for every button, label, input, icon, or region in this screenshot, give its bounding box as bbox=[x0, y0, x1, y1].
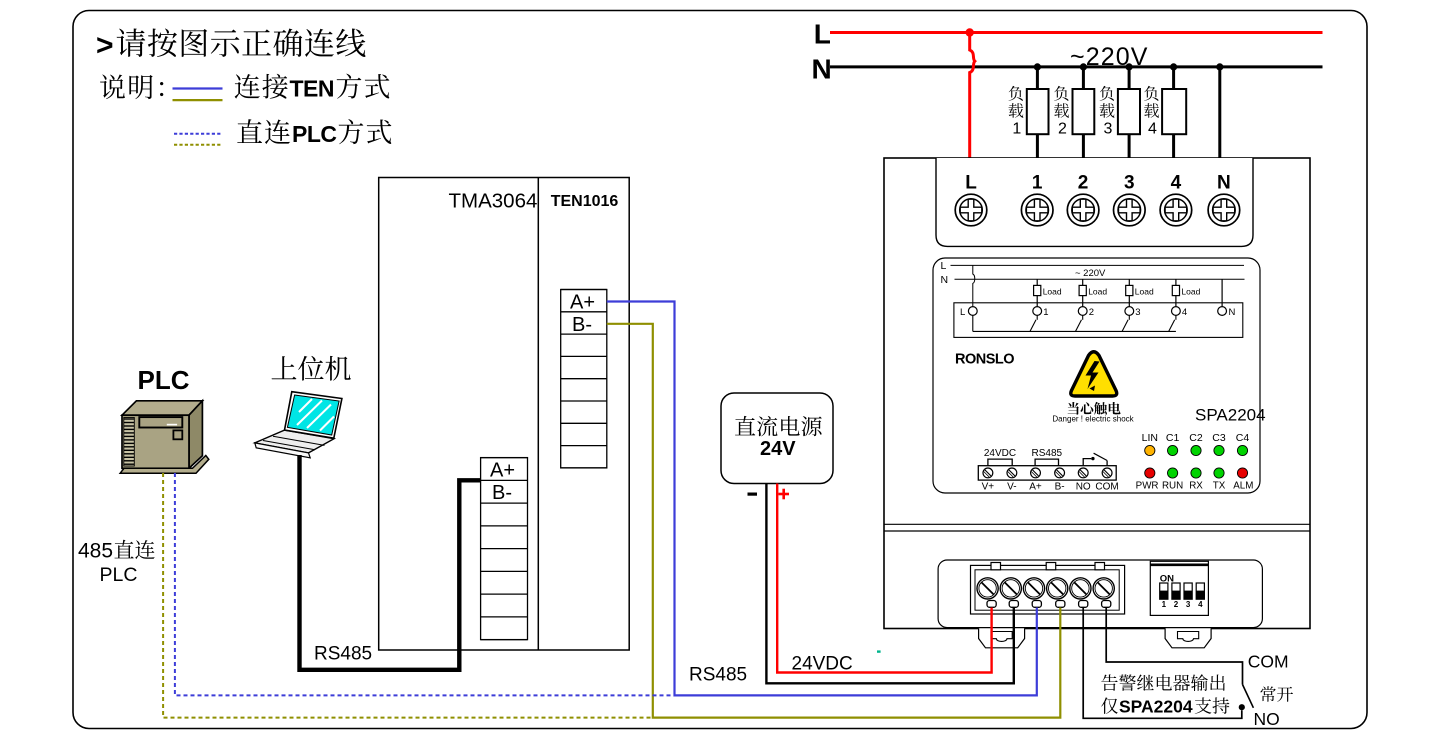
mini load branch 2 bbox=[1079, 279, 1107, 306]
svg-text:4: 4 bbox=[1148, 121, 1157, 138]
svg-text:C1: C1 bbox=[1166, 432, 1180, 444]
svg-text:N: N bbox=[941, 274, 949, 286]
relay contact dot NO bbox=[1239, 704, 1245, 710]
minus terminal label bbox=[748, 493, 758, 496]
svg-text:1: 1 bbox=[1032, 173, 1043, 194]
svg-text:24VDC: 24VDC bbox=[792, 654, 853, 675]
svg-text:2: 2 bbox=[1174, 600, 1179, 609]
wire N to load 1 bbox=[1036, 67, 1039, 89]
svg-text:1: 1 bbox=[1043, 307, 1048, 318]
label 告警继电器输出 bbox=[1101, 674, 1225, 691]
junction dot on N at N drop bbox=[1216, 63, 1223, 70]
legend wire PLC dashed blue bbox=[174, 133, 222, 135]
wire olive B- TEN1016 to B- terminal bbox=[607, 324, 1061, 718]
svg-text:>: > bbox=[96, 29, 114, 62]
junction dot on N (branch 4) bbox=[1170, 63, 1177, 70]
LED RX bbox=[1191, 468, 1201, 478]
label 负载4 bbox=[1144, 86, 1159, 138]
mounting foot bbox=[979, 628, 1025, 648]
svg-text:4: 4 bbox=[1198, 600, 1203, 609]
junction dot on N (branch 1) bbox=[1034, 63, 1041, 70]
load resistor 负载3 bbox=[1118, 89, 1140, 134]
wire dashed blue PLC direct A+ bbox=[175, 473, 675, 695]
terminal block tab bbox=[991, 563, 1001, 570]
terminal screw 2 bbox=[1067, 194, 1099, 226]
wire slot 3 bbox=[1032, 601, 1041, 608]
device SPA2204 outer body bbox=[884, 158, 1310, 629]
svg-text:RS485: RS485 bbox=[689, 665, 747, 686]
svg-text:N: N bbox=[1229, 307, 1236, 318]
module divider bbox=[537, 178, 539, 651]
label 常开 bbox=[1260, 686, 1293, 702]
load resistor 负载1 bbox=[1027, 89, 1049, 134]
svg-text:TX: TX bbox=[1213, 481, 1226, 492]
LED TX bbox=[1214, 468, 1224, 478]
label 上位机 bbox=[272, 356, 351, 381]
wire load 1 to terminal 1 bbox=[1036, 134, 1039, 166]
svg-text:A+: A+ bbox=[570, 292, 595, 314]
mini relay contact symbol bbox=[1083, 453, 1107, 466]
svg-text:1: 1 bbox=[1012, 121, 1021, 138]
mini terminal block bbox=[978, 466, 1116, 480]
DIP switch 4 bbox=[1196, 583, 1204, 609]
junction dot on N (branch 2) bbox=[1080, 63, 1087, 70]
wire blue A+ TEN1016 to A+ terminal bbox=[607, 302, 1037, 696]
svg-text:24V: 24V bbox=[760, 438, 796, 460]
terminal block tab bbox=[1046, 563, 1056, 570]
mini terminal N circle bbox=[1218, 307, 1227, 316]
mini load branch 3 bbox=[1126, 279, 1154, 306]
device band line upper bbox=[884, 523, 1310, 525]
svg-text:SPA2204: SPA2204 bbox=[1195, 406, 1266, 425]
mini screw A+ bbox=[1031, 468, 1041, 478]
svg-text:A+: A+ bbox=[1029, 482, 1042, 493]
svg-text:V-: V- bbox=[1007, 482, 1016, 493]
mini wire N drop bbox=[1221, 279, 1223, 306]
svg-text:RS485: RS485 bbox=[314, 644, 372, 665]
warning triangle bbox=[1071, 352, 1117, 396]
mini screw V+ bbox=[983, 468, 993, 478]
svg-text:RONSLO: RONSLO bbox=[955, 352, 1014, 368]
svg-text:Load: Load bbox=[1088, 287, 1107, 297]
mini screw COM bbox=[1102, 468, 1112, 478]
label 负载2 bbox=[1054, 86, 1069, 138]
TEN1016 terminal strip bbox=[561, 290, 607, 468]
svg-text:ALM: ALM bbox=[1233, 481, 1253, 492]
plus terminal label (red) bbox=[779, 489, 790, 500]
top terminal strip box bbox=[936, 158, 1253, 246]
svg-text:2: 2 bbox=[1058, 121, 1067, 138]
mini terminal 2 circle + switch bbox=[1076, 307, 1094, 332]
wire COM bbox=[1106, 608, 1242, 685]
svg-text:4: 4 bbox=[1182, 307, 1187, 318]
svg-text:L: L bbox=[965, 173, 977, 194]
wire N to load 4 bbox=[1172, 67, 1175, 89]
bottom screw 1 bbox=[977, 578, 998, 599]
terminal screw N bbox=[1208, 194, 1240, 226]
wire black -24V to V- bbox=[766, 484, 1013, 684]
LED C2 bbox=[1191, 445, 1201, 455]
wire RS485 cable (laptop to TMA3064) thick black bbox=[300, 455, 481, 670]
legend wire TEN solid blue bbox=[173, 87, 223, 89]
mini screw V- bbox=[1007, 468, 1017, 478]
svg-text:COM: COM bbox=[1248, 652, 1289, 672]
bottom screw 2 bbox=[1000, 578, 1021, 599]
module box TMA3064/TEN1016 bbox=[379, 178, 630, 651]
mounting foot bbox=[1165, 628, 1211, 648]
svg-text:1: 1 bbox=[1162, 600, 1167, 609]
junction dot on L bbox=[966, 28, 974, 36]
bottom screw 6 bbox=[1093, 578, 1114, 599]
wire NO to relay contact bbox=[1083, 608, 1242, 719]
mini load branch 1 bbox=[1034, 279, 1062, 306]
wire dashed olive PLC direct B- bbox=[163, 473, 653, 718]
mini wire N bbox=[955, 278, 1245, 280]
laptop 上位机 bbox=[255, 392, 342, 458]
legend text 连接TEN方式 bbox=[235, 74, 390, 102]
load resistor 负载2 bbox=[1073, 89, 1095, 134]
terminal screw 4 bbox=[1160, 194, 1192, 226]
junction dot on N (branch 3) bbox=[1126, 63, 1133, 70]
svg-text:L: L bbox=[960, 307, 965, 318]
wire N (neutral, black) bbox=[830, 65, 1323, 68]
wire slot 2 bbox=[1009, 601, 1018, 608]
stray green tick bbox=[877, 650, 881, 652]
mini screw NO bbox=[1078, 468, 1088, 478]
wire L drop to terminal L with hop over N bbox=[970, 33, 975, 167]
wire load 4 to terminal 4 bbox=[1172, 134, 1175, 166]
svg-text:V+: V+ bbox=[982, 482, 995, 493]
wire L (live, red) bbox=[830, 31, 1323, 34]
svg-text:RUN: RUN bbox=[1162, 481, 1183, 492]
mini terminal 4 circle + switch bbox=[1169, 307, 1187, 332]
label 负载3 bbox=[1100, 86, 1115, 138]
svg-text:2: 2 bbox=[1078, 173, 1089, 194]
wire load 3 to terminal 3 bbox=[1128, 134, 1131, 166]
label 负载1 bbox=[1008, 86, 1023, 138]
wire slot 4 bbox=[1056, 601, 1065, 608]
LED C1 bbox=[1168, 445, 1178, 455]
title 请按图示正确连线 bbox=[96, 28, 366, 62]
legend label 说明： bbox=[100, 74, 163, 99]
svg-text:C2: C2 bbox=[1189, 432, 1203, 444]
svg-text:~ 220V: ~ 220V bbox=[1075, 268, 1106, 279]
legend wire PLC dashed olive bbox=[174, 144, 222, 146]
svg-text:3: 3 bbox=[1104, 121, 1113, 138]
wire load 2 to terminal 2 bbox=[1082, 134, 1085, 166]
svg-text:Danger ! electric shock: Danger ! electric shock bbox=[1052, 414, 1134, 423]
svg-text:3: 3 bbox=[1135, 307, 1140, 318]
svg-text:B-: B- bbox=[572, 314, 592, 336]
mini terminal 1 circle + switch bbox=[1030, 307, 1048, 332]
mini terminal L circle bbox=[968, 307, 977, 316]
svg-text:TMA3064: TMA3064 bbox=[449, 190, 538, 213]
svg-text:LIN: LIN bbox=[1142, 432, 1158, 444]
svg-text:2: 2 bbox=[1089, 307, 1094, 318]
svg-text:C3: C3 bbox=[1212, 432, 1226, 444]
svg-text:N: N bbox=[1217, 173, 1231, 194]
svg-text:485: 485 bbox=[78, 540, 113, 563]
PLC controller 3D box bbox=[120, 401, 209, 473]
svg-text:NO: NO bbox=[1254, 709, 1280, 729]
svg-text:NO: NO bbox=[1076, 482, 1091, 493]
LED RUN bbox=[1168, 468, 1178, 478]
wire slot 1 bbox=[987, 601, 996, 608]
LED C3 bbox=[1214, 445, 1224, 455]
svg-text:3: 3 bbox=[1124, 173, 1135, 194]
legend text 直连PLC方式 bbox=[237, 119, 391, 147]
bottom screw 4 bbox=[1047, 578, 1068, 599]
mini wire L drop with hop bbox=[973, 265, 975, 306]
wire N drop to terminal N bbox=[1218, 67, 1221, 166]
svg-text:B-: B- bbox=[492, 482, 512, 504]
legend wire TEN solid olive bbox=[173, 99, 223, 101]
load resistor 负载4 bbox=[1162, 89, 1186, 134]
bottom screw 3 bbox=[1023, 578, 1044, 599]
svg-text:TEN: TEN bbox=[290, 76, 335, 102]
mini wire L to bus bbox=[972, 315, 974, 331]
wire N to load 3 bbox=[1128, 67, 1131, 89]
svg-text:PWR: PWR bbox=[1136, 481, 1159, 492]
bracket 24VDC bbox=[988, 459, 1012, 466]
svg-text:B-: B- bbox=[1055, 482, 1065, 493]
label 仅SPA2204支持 bbox=[1101, 697, 1229, 717]
wire slot 6 bbox=[1102, 601, 1111, 608]
terminal screw 3 bbox=[1114, 194, 1146, 226]
svg-text:24VDC: 24VDC bbox=[984, 448, 1016, 459]
wire N to load 2 bbox=[1082, 67, 1085, 89]
svg-text:4: 4 bbox=[1171, 173, 1182, 194]
bottom terminal bay bbox=[938, 560, 1262, 628]
mini load branch 4 bbox=[1172, 279, 1200, 306]
svg-text:Load: Load bbox=[1043, 287, 1062, 297]
DIP switch 3 bbox=[1184, 583, 1192, 609]
TMA3064 terminal strip bbox=[481, 458, 528, 640]
DIP switch block bbox=[1150, 561, 1208, 615]
svg-text:C4: C4 bbox=[1236, 432, 1250, 444]
svg-text:PLC: PLC bbox=[292, 121, 337, 147]
svg-text:PLC: PLC bbox=[100, 564, 138, 586]
device front panel bbox=[933, 258, 1260, 493]
bracket RS485 bbox=[1035, 459, 1058, 466]
LED C4 bbox=[1237, 445, 1247, 455]
svg-text:RS485: RS485 bbox=[1032, 448, 1063, 459]
svg-text:3: 3 bbox=[1186, 600, 1191, 609]
svg-text:Load: Load bbox=[1135, 287, 1154, 297]
warning text 当心触电 bbox=[1068, 402, 1121, 415]
svg-text:N: N bbox=[812, 54, 832, 85]
mini bus wire bbox=[973, 330, 1176, 332]
svg-text:A+: A+ bbox=[490, 460, 515, 482]
svg-text:SPA2204: SPA2204 bbox=[1119, 697, 1193, 717]
svg-text:RX: RX bbox=[1189, 481, 1203, 492]
DIP switch 2 bbox=[1172, 583, 1180, 609]
device band line lower bbox=[884, 530, 1310, 532]
LED LIN bbox=[1145, 445, 1155, 455]
terminal block tab bbox=[1095, 563, 1105, 570]
mini terminal 3 circle + switch bbox=[1122, 307, 1140, 332]
terminal screw 1 bbox=[1021, 194, 1053, 226]
bottom screw 5 bbox=[1070, 578, 1091, 599]
relay lever (normally open) bbox=[1243, 685, 1254, 708]
wire red +24V to V+ bbox=[777, 484, 991, 673]
label 485直连 PLC bbox=[78, 540, 155, 587]
terminal screw L bbox=[955, 194, 987, 226]
LED PWR bbox=[1145, 468, 1155, 478]
svg-text:PLC: PLC bbox=[138, 365, 190, 395]
wire slot 5 bbox=[1079, 601, 1088, 608]
svg-text:L: L bbox=[814, 19, 831, 50]
DC power supply 直流电源24V bbox=[721, 393, 833, 484]
svg-text:TEN1016: TEN1016 bbox=[551, 193, 619, 210]
terminal block inner bbox=[975, 570, 1119, 610]
mini screw B- bbox=[1055, 468, 1065, 478]
svg-text:Load: Load bbox=[1181, 287, 1200, 297]
mini wire L bbox=[951, 264, 1245, 266]
mini terminal row box bbox=[954, 303, 1243, 338]
LED ALM bbox=[1237, 468, 1247, 478]
svg-text:COM: COM bbox=[1095, 482, 1118, 493]
terminal block outer bbox=[971, 565, 1125, 614]
DIP switch 1 bbox=[1160, 583, 1168, 609]
svg-text:L: L bbox=[941, 260, 947, 272]
